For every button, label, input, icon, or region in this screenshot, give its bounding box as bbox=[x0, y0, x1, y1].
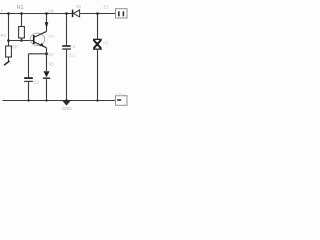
node junction (21,13) bbox=[20, 12, 23, 15]
node junction (66,100) bbox=[65, 99, 68, 102]
node junction (8,13) bbox=[7, 12, 10, 15]
terminal box bottom right contact bbox=[117, 99, 121, 101]
wire left column x8 upper bbox=[8, 14, 10, 47]
node junction (28,100) bbox=[27, 99, 29, 101]
svg-text:VD: VD bbox=[76, 4, 82, 9]
wire bottom rail bbox=[3, 100, 116, 102]
wire collector column x46 from rail bbox=[46, 14, 48, 32]
wire VD2 to bottom rail bbox=[46, 79, 48, 101]
node junction (8,40) bbox=[7, 39, 10, 42]
svg-text:220V: 220V bbox=[115, 92, 125, 97]
wire column x66 upper bbox=[66, 14, 68, 46]
wire R1 to base wire bbox=[21, 38, 23, 41]
svg-text:R2: R2 bbox=[1, 33, 7, 38]
svg-text:C1: C1 bbox=[70, 44, 76, 49]
node junction (46,100) bbox=[45, 99, 47, 101]
transistor VT base bar bbox=[33, 35, 35, 44]
node junction (97,13) bbox=[96, 12, 99, 15]
node junction (46,13) bbox=[45, 12, 48, 15]
wire below R2 bbox=[8, 57, 10, 62]
wire C2 to bottom rail bbox=[28, 82, 30, 101]
node junction (97,100) bbox=[96, 99, 98, 101]
wire column x97 lower bbox=[97, 50, 99, 101]
svg-text:1W: 1W bbox=[48, 9, 54, 14]
svg-text:6V: 6V bbox=[49, 52, 54, 57]
resistor R1 bbox=[19, 27, 25, 39]
node junction (21,40) bbox=[20, 39, 23, 42]
wire column x21 bbox=[21, 14, 23, 27]
svg-text:EL: EL bbox=[104, 4, 110, 9]
node junction (66,13) bbox=[65, 12, 68, 15]
diac VS bottom bar bbox=[93, 49, 102, 50]
resistor R2 (lower left) bbox=[6, 46, 12, 57]
svg-text:C2: C2 bbox=[34, 80, 40, 85]
svg-text:+: + bbox=[32, 72, 35, 77]
terminal box top right contacts bbox=[118, 11, 120, 16]
svg-text:VD: VD bbox=[49, 61, 55, 66]
diode VD2 cathode bar bbox=[43, 78, 50, 79]
transistor VT collector lead bbox=[35, 31, 47, 37]
svg-text:RP: RP bbox=[12, 44, 18, 49]
diode VD1 in top rail : cathode bar bbox=[72, 10, 74, 18]
diac VS cross stroke 2 bbox=[94, 40, 102, 49]
diode VD1 triangle (pointing left) bbox=[74, 10, 80, 17]
svg-text:0.1: 0.1 bbox=[69, 53, 75, 58]
svg-text:~: ~ bbox=[93, 6, 96, 11]
svg-text:VS: VS bbox=[103, 40, 109, 45]
capacitor C1 plate top bbox=[62, 45, 71, 47]
wiper arrow foot of R2 bbox=[4, 61, 10, 65]
transistor VT emitter arrow bbox=[40, 43, 45, 47]
wire emitter branch to C2 bbox=[29, 53, 47, 55]
wire top rail bbox=[0, 13, 116, 15]
wire column x66 lower bbox=[66, 50, 68, 101]
wire base bbox=[9, 40, 34, 42]
svg-text:a: a bbox=[1, 8, 4, 13]
capacitor C1 plate bottom bbox=[62, 48, 71, 49]
wire C2 column x28 bbox=[28, 54, 30, 77]
svg-text:R1: R1 bbox=[17, 5, 24, 11]
terminal box top right bbox=[116, 9, 128, 18]
ground arrow below rail bbox=[62, 101, 70, 106]
diac VS triangle down bbox=[94, 40, 102, 49]
diac VS top bar bbox=[93, 39, 102, 40]
svg-text:VT: VT bbox=[48, 34, 54, 39]
node junction (46,53.8) bbox=[45, 52, 48, 55]
diode VD2 triangle bbox=[43, 71, 49, 77]
svg-text:GND: GND bbox=[62, 106, 72, 111]
wire column x97 upper bbox=[97, 14, 99, 40]
capacitor C2 plate bottom bbox=[24, 81, 33, 82]
current arrow on collector wire bbox=[45, 22, 49, 28]
transistor VT emitter lead bbox=[35, 42, 47, 48]
capacitor C2 plate top bbox=[24, 77, 33, 79]
transistor VT circle bbox=[30, 33, 45, 45]
terminal box bottom right bbox=[116, 96, 128, 106]
svg-text:t: t bbox=[11, 60, 13, 65]
wire emitter column x46 down bbox=[46, 48, 48, 71]
